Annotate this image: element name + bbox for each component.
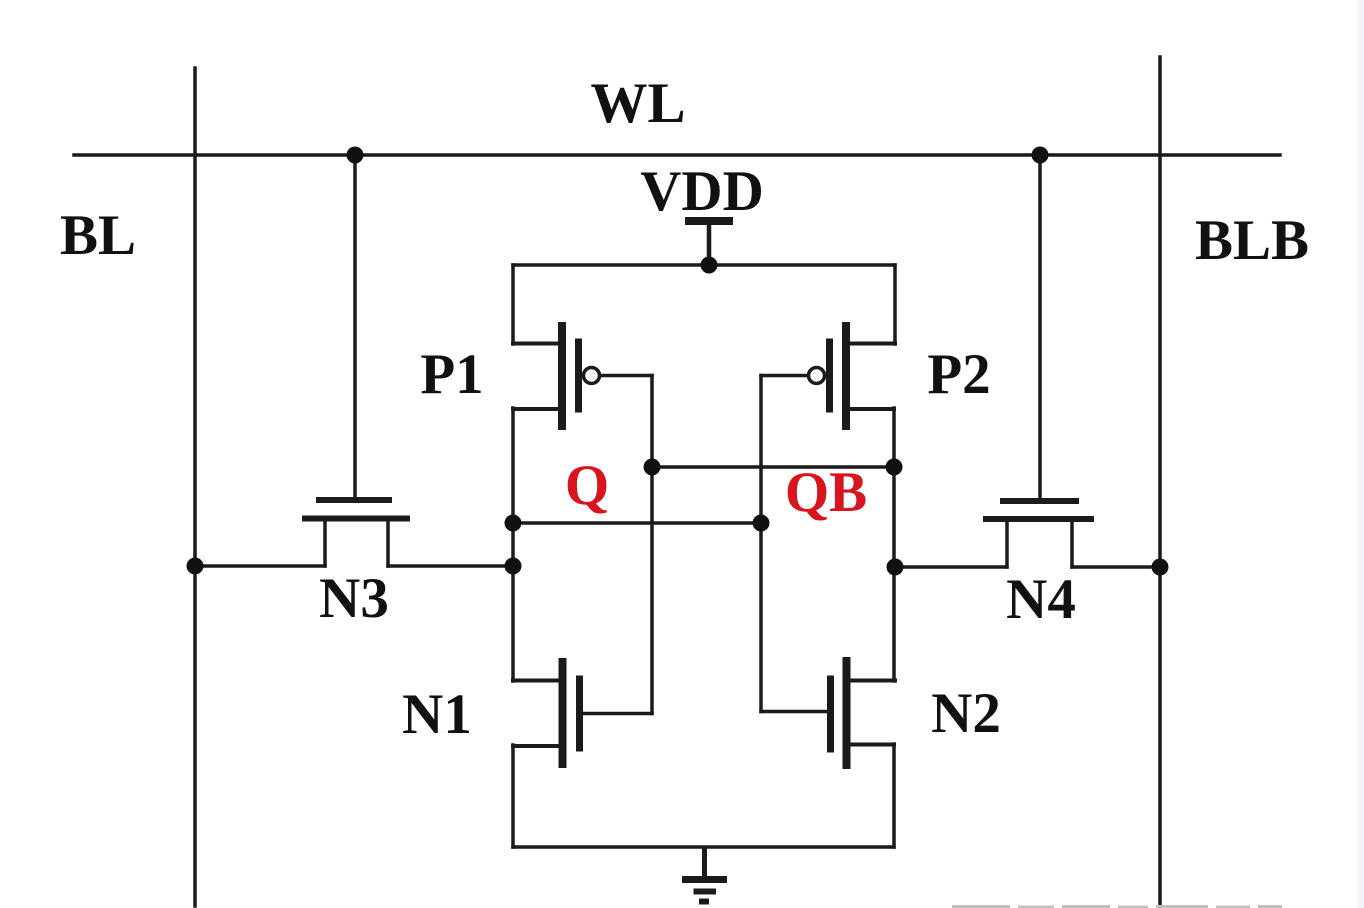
- wire cross-couple Q to gates of P2 N2 vertical: [759, 376, 763, 712]
- svg-text:N3: N3: [319, 567, 389, 630]
- wire left rail lower (N1 source to ground rail): [511, 745, 515, 847]
- svg-text:P1: P1: [420, 343, 483, 406]
- node junction dot WL-N3: [347, 147, 364, 164]
- wire N3 source leg: [323, 520, 327, 566]
- wire right rail lower (N2 source to ground rail): [892, 744, 896, 847]
- wire cross-couple QB to gates of P1 N1 vertical: [650, 376, 654, 714]
- node junction dot QB rail lower: [887, 559, 904, 576]
- node junction dot QB cross vertical: [644, 459, 661, 476]
- wire cross-couple QB horizontal: [652, 465, 894, 469]
- node junction dot VDD rail: [701, 257, 718, 274]
- transistor N2: [761, 661, 895, 765]
- wire N4 drain to BLB: [1072, 565, 1160, 569]
- transistor P2: [761, 326, 895, 426]
- wire N4 drain leg: [1070, 520, 1074, 567]
- node junction dot QB rail upper: [886, 459, 903, 476]
- svg-text:BLB: BLB: [1195, 209, 1309, 272]
- wire WL word line: [74, 153, 1280, 157]
- transistor N3 access: [305, 500, 407, 519]
- node junction dot Q rail upper: [505, 515, 522, 532]
- svg-text:N4: N4: [1006, 568, 1076, 631]
- svg-text:VDD: VDD: [640, 160, 764, 223]
- wire right rail mid (P2 drain to N2 drain, node QB): [892, 408, 896, 681]
- wire left rail upper (VDD to P1 source): [511, 265, 515, 344]
- page edge band right: [1357, 0, 1364, 908]
- wire right rail upper (VDD to P2 source): [893, 265, 897, 344]
- node junction dot WL-N4: [1032, 147, 1049, 164]
- wire BL to N3 source: [195, 564, 325, 568]
- ground symbol: [682, 847, 727, 902]
- svg-text:BL: BL: [60, 204, 136, 267]
- transistor N4 access: [986, 501, 1091, 519]
- wire left rail mid (P1 drain to N1 drain, node Q): [511, 408, 515, 681]
- cropped caption text fragment at bottom: [952, 905, 1282, 908]
- node junction dot BL-N3: [187, 558, 204, 575]
- wire N4 source leg: [1005, 520, 1009, 567]
- wire WL to N3 gate: [353, 155, 357, 498]
- wire QB to N4 source: [895, 565, 1007, 569]
- node junction dot Q rail lower: [505, 558, 522, 575]
- svg-text:WL: WL: [590, 72, 685, 135]
- wire VDD top rail: [513, 263, 895, 267]
- node junction dot Q cross vertical: [753, 515, 770, 532]
- transistor P1: [513, 326, 652, 426]
- wire VDD stem: [707, 223, 712, 265]
- transistor N1: [513, 662, 652, 764]
- svg-text:Q: Q: [565, 454, 609, 517]
- wire N3 drain to node Q: [388, 564, 513, 568]
- svg-text:QB: QB: [785, 461, 867, 524]
- wire BL bit line: [193, 68, 197, 906]
- wire ground bottom rail: [513, 845, 894, 849]
- svg-text:P2: P2: [927, 343, 990, 406]
- wire WL to N4 gate: [1038, 155, 1042, 499]
- power symbol VDD bar: [685, 217, 733, 225]
- wire cross-couple Q horizontal: [513, 521, 761, 525]
- wire BLB bit line bar: [1158, 57, 1162, 908]
- svg-text:N2: N2: [931, 682, 1001, 745]
- svg-text:N1: N1: [402, 683, 472, 746]
- wire N3 drain leg: [386, 520, 390, 566]
- node junction dot BLB-N4: [1152, 559, 1169, 576]
